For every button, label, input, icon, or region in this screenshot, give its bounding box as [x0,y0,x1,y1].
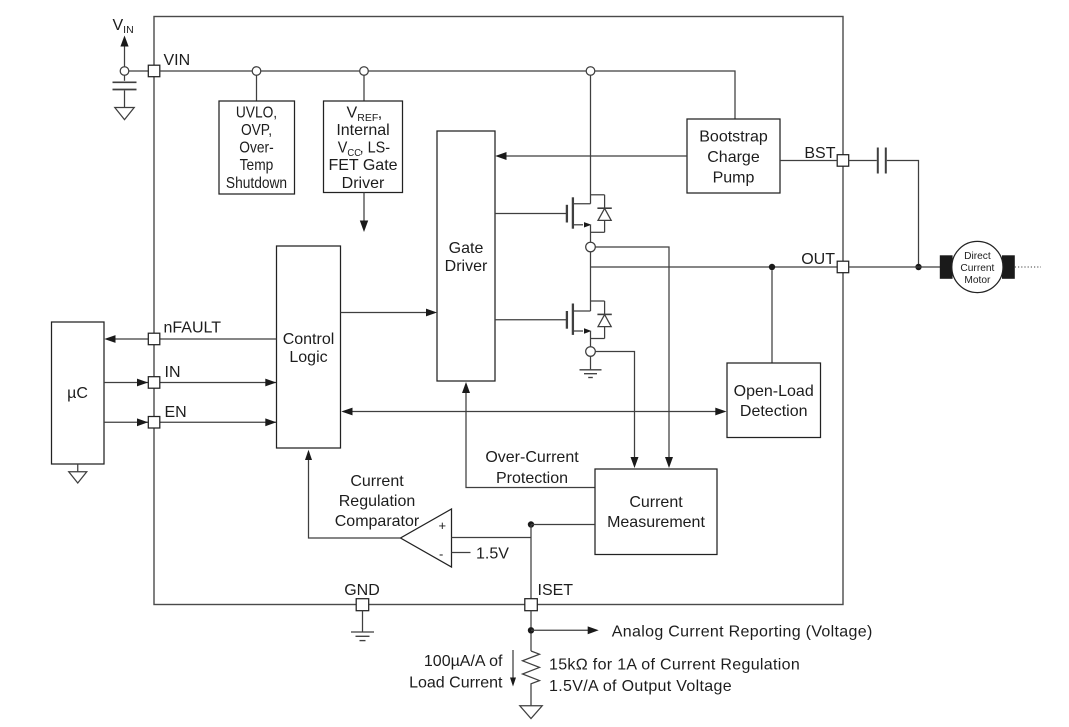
svg-text:Analog Current Reporting (Volt: Analog Current Reporting (Voltage) [612,624,873,641]
svg-text:Internal: Internal [336,122,389,139]
svg-text:Charge: Charge [707,149,760,166]
label IN [165,364,181,381]
wire Bootstrap to Gate Driver [498,155,688,157]
block VREF / Internal VCC / LS-FET Gate Driver [324,101,403,193]
wire VIN rail to VREF box [363,75,365,101]
node SW: switch node circle [586,242,596,252]
svg-text:, LS-: , LS- [360,139,390,157]
svg-text:Current: Current [960,263,994,274]
wire VIN rail [160,71,735,119]
svg-text:BST: BST [804,145,835,162]
svg-text:Measurement: Measurement [607,514,705,531]
arrowhead up at VIN [120,36,128,47]
svg-text:-: - [439,547,443,562]
wire Bootstrap to BST pin [780,160,837,162]
svg-text:VIN: VIN [113,17,134,36]
svg-text:ISET: ISET [538,582,574,599]
label Over-Current Protection [485,449,579,487]
node A: external VIN node circle [120,67,129,76]
label OUT [801,251,835,268]
wire BST pin to bootstrap capacitor [849,160,877,162]
wire OUT pin to motor [849,266,940,268]
op-amp U1 current regulation comparator [401,509,452,567]
wire OUT net (internal) [591,266,838,268]
pin OUT square [837,261,849,273]
label EN [165,404,187,421]
svg-text:Regulation: Regulation [339,493,416,510]
wire VIN rail down to high-side FET drain [590,75,592,204]
svg-text:Pump: Pump [713,170,755,187]
wire comparator + input [452,537,532,539]
diode D2 (Q2 body diode) [591,301,612,339]
wire LS source to Current Measurement (left branch) [595,352,634,459]
block Bootstrap Charge Pump [687,119,780,193]
ground PGND below low-side FET [580,356,602,377]
pin GND square [356,599,369,611]
wire switch node to Current Measurement (right branch) [595,247,669,459]
transistor Q2 low-side FET [495,304,592,347]
wire comparator output to Control Logic [309,452,401,538]
junction dot ISET sense node [528,521,534,527]
capacitor C_VIN [124,75,126,81]
label nFAULT [164,320,222,337]
resistor R_ISET [523,651,540,706]
capacitor C_BST [877,148,879,174]
wire switch node down to low-side drain [590,252,592,311]
svg-text:100µA/A of: 100µA/A of [424,653,503,670]
svg-text:Open-Load: Open-Load [734,383,814,400]
label 100uA/A of Load Current [409,653,503,692]
wire node to VIN pin [129,70,149,72]
svg-text:Over-Current: Over-Current [485,449,579,466]
svg-text:Logic: Logic [289,349,327,366]
wire capacitor to OUT net [887,161,919,268]
svg-text:V: V [347,105,358,122]
svg-text:Comparator: Comparator [335,513,420,530]
ground (input side, open triangle) [115,108,134,120]
wire sense node down to ISET pin [530,525,532,599]
svg-text:Shutdown: Shutdown [226,174,287,192]
svg-text:15kΩ for 1A of Current Regulat: 15kΩ for 1A of Current Regulation [549,657,800,674]
block Control Logic [277,246,341,448]
svg-text:Current: Current [629,494,683,511]
wire nFAULT [107,338,277,340]
ground GND earth symbol [351,611,374,641]
wire IN [104,382,276,384]
svg-text:µC: µC [67,385,88,402]
block Gate Driver [437,131,495,381]
svg-text:Over-: Over- [239,139,273,157]
wire Current Measurement to sense node [531,524,595,526]
wire VIN arrow stem [124,47,126,67]
pin VIN square [148,65,160,77]
svg-text:OUT: OUT [801,251,835,268]
chip outline (device boundary) [154,17,843,605]
svg-text:+: + [439,518,447,533]
pin ISET square [525,599,538,611]
junction dot OUT / open-load tap [769,264,775,270]
label Current Regulation Comparator [335,473,420,530]
svg-text:UVLO,: UVLO, [236,104,277,122]
label Analog Current Reporting [612,624,873,641]
wire VIN rail to UVLO box [256,75,258,101]
svg-text:OVP,: OVP, [241,121,272,139]
pin IN square [148,377,160,389]
svg-text:Driver: Driver [342,175,385,192]
ground under uC [77,464,79,472]
wire ISET pin down [530,611,532,651]
svg-text:Detection: Detection [740,403,808,420]
svg-text:1.5V: 1.5V [476,546,509,563]
block Open-Load Detection [727,363,821,438]
svg-text:IN: IN [165,364,181,381]
junction circle on VIN rail (UVLO tap) [252,67,261,76]
svg-text:Gate: Gate [449,240,484,257]
label BST [804,145,835,162]
label 15k ohm / 1.5V/A notes [549,657,800,696]
svg-text:Protection: Protection [496,470,568,487]
svg-text:Load Current: Load Current [409,675,503,692]
block Current Measurement [595,469,717,555]
svg-text:Direct: Direct [964,251,991,262]
junction circle on VIN rail (VREF tap) [360,67,369,76]
wire VREF output down arrow [363,193,365,222]
junction dot analog reporting tap [528,627,534,633]
block microcontroller uC [52,322,105,464]
ground (open triangle below resistor) [520,706,542,719]
motor M1 Direct Current Motor [940,241,1041,292]
svg-text:Control: Control [283,331,335,348]
wire comparator - input [452,552,471,554]
svg-text:nFAULT: nFAULT [164,320,222,337]
wire bidirectional Control Logic / Open-Load Detection [344,411,725,413]
label GND [344,582,380,599]
block UVLO/OVP/Over-Temp Shutdown [219,101,295,194]
wire analog current reporting arrow [531,629,596,631]
wire Control Logic to Gate Driver [341,312,435,314]
svg-text:Current: Current [350,473,404,490]
transistor Q1 high-side FET [495,197,592,242]
label ISET [538,582,574,599]
label VIN [164,52,191,69]
svg-text:VIN: VIN [164,52,191,69]
node VIN external label [113,17,134,36]
arrow current direction beside resistor [512,650,514,679]
wire EN [104,421,276,423]
label 1.5V [476,546,509,563]
svg-text:FET Gate: FET Gate [328,157,397,174]
svg-text:Bootstrap: Bootstrap [699,129,768,146]
pin nFAULT square [148,333,160,345]
pin EN square [148,417,160,429]
wire OUT tap down to Open-Load Detection [771,270,773,363]
node LS source circle [586,347,596,357]
diode D1 (Q1 body diode) [591,195,612,233]
svg-text:EN: EN [165,404,187,421]
wire over-current protection path to Gate Driver [466,384,595,487]
junction circle on VIN rail (FET drain tap) [586,67,595,76]
svg-text:1.5V/A of Output Voltage: 1.5V/A of Output Voltage [549,678,732,695]
svg-text:Driver: Driver [445,258,488,275]
svg-text:GND: GND [344,582,380,599]
junction dot BST cap on OUT line [915,264,921,270]
pin BST square [837,155,849,167]
svg-text:,: , [378,105,382,122]
svg-text:Temp: Temp [240,156,274,174]
svg-text:Motor: Motor [964,275,991,286]
